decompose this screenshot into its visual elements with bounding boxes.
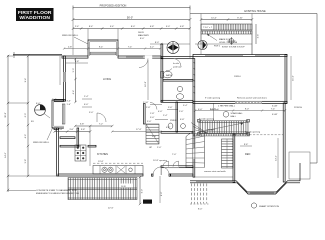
upper cabinets dashed: [93, 162, 143, 164]
deck stairs (wide, bottom-left): [68, 178, 137, 200]
dashed exterior stair (to remove): [190, 184, 209, 205]
svg-text:8'-8": 8'-8": [75, 61, 80, 63]
svg-text:2'-0": 2'-0": [157, 147, 162, 149]
svg-text:2'-4": 2'-4": [52, 99, 57, 101]
window well (left): [52, 100, 71, 128]
label: WINDOW WELL (top): [62, 35, 88, 44]
svg-text:7'-2": 7'-2": [99, 124, 104, 126]
svg-text:56'-0": 56'-0": [127, 16, 133, 19]
kitchen west line: [89, 126, 91, 166]
svg-text:PROPOSED ADDITION: PROPOSED ADDITION: [100, 4, 127, 7]
svg-text:4'-6": 4'-6": [161, 191, 163, 196]
svg-text:7'-0": 7'-0": [172, 154, 177, 156]
svg-text:6'-0": 6'-0": [198, 109, 203, 111]
svg-text:14'-0": 14'-0": [5, 152, 7, 158]
stair texts: [120, 184, 133, 188]
svg-text:8'-0": 8'-0": [198, 209, 203, 211]
interior wall: bath partition: [163, 80, 193, 82]
svg-text:KITCHEN: KITCHEN: [97, 153, 108, 156]
note: concrete stair to basement: [36, 189, 80, 195]
wall: family room south: [193, 101, 287, 103]
svg-text:6'-8": 6'-8": [150, 26, 155, 28]
dimension line segments top: [72, 26, 191, 30]
svg-text:2'-4": 2'-4": [163, 115, 168, 117]
svg-text:HALL: HALL: [231, 115, 237, 118]
svg-text:4'-4": 4'-4": [73, 90, 75, 95]
kitchen counter w range and sink: [93, 166, 143, 175]
svg-text:pedestal: pedestal: [172, 66, 182, 69]
svg-text:CONCRETE STAIR TO BASEMENT FOR: CONCRETE STAIR TO BASEMENT FOR: [36, 189, 77, 192]
svg-text:36'-8": 36'-8": [5, 112, 7, 118]
svg-text:for the: for the: [173, 62, 180, 65]
wall: south segment right of doors: [171, 174, 194, 176]
svg-text:WINDOW WELL: WINDOW WELL: [62, 35, 79, 37]
svg-text:6'-0": 6'-0": [36, 103, 41, 105]
door arc bath: [173, 59, 181, 67]
svg-text:3'-0": 3'-0": [147, 121, 152, 123]
svg-text:16 R: 16 R: [121, 186, 126, 188]
wall: pantry vertical: [77, 128, 79, 146]
winder stair (curved): [186, 132, 205, 168]
door arc into living: [139, 59, 148, 68]
title block: FIRST FLOOR W/ADDITION: [16, 8, 54, 21]
window well (top): [88, 40, 118, 56]
svg-text:9'-6": 9'-6": [244, 144, 249, 146]
dim row above top wall: [63, 46, 161, 49]
svg-text:PORCH: PORCH: [294, 107, 302, 109]
svg-text:DECK: DECK: [138, 32, 145, 34]
svg-text:5'-8": 5'-8": [25, 159, 27, 164]
svg-text:2'-8": 2'-8": [58, 129, 63, 131]
svg-text:6'-0": 6'-0": [25, 113, 27, 118]
veranda step band (existing stoop): [201, 24, 252, 34]
deck / bay window south wall: [190, 163, 300, 194]
svg-text:5'-0": 5'-0": [73, 68, 75, 73]
target symbol: [228, 37, 236, 45]
window in top wall: [126, 56, 143, 58]
detail bubble B: [35, 105, 50, 118]
wall: family room east: [285, 54, 287, 103]
svg-text:9'-4": 9'-4": [25, 78, 27, 83]
dimension line 56'-0": [72, 16, 192, 21]
svg-text:5'-4": 5'-4": [183, 105, 188, 107]
svg-text:DEN: DEN: [245, 153, 250, 156]
property/outline line right: [316, 14, 318, 164]
svg-text:22'-6": 22'-6": [108, 208, 114, 210]
svg-text:EXIST STONE STOOP: EXIST STONE STOOP: [222, 47, 245, 49]
svg-text:6'-0": 6'-0": [84, 104, 89, 106]
porch outline: [272, 107, 317, 179]
wall: top wall bath section: [161, 57, 193, 59]
right wall dim: [291, 56, 295, 100]
svg-text:7'-4": 7'-4": [271, 108, 276, 110]
left column extra labels: [8, 56, 58, 191]
svg-text:7'-4": 7'-4": [128, 46, 133, 48]
svg-text:FIRST FLOOR: FIRST FLOOR: [18, 10, 52, 16]
svg-text:6'-08": 6'-08": [272, 106, 278, 108]
svg-text:SMART INTENTION: SMART INTENTION: [259, 205, 279, 208]
solid black marker: [143, 200, 152, 204]
wall: bath/hall south: [161, 100, 193, 102]
wall: den west: [233, 134, 235, 183]
den north dashed opening: [235, 134, 283, 136]
toilet: [161, 71, 173, 78]
dimension line right 10'-6" / 8'-10": [200, 17, 253, 20]
interior wall: stair hall west: [193, 59, 195, 178]
north/section marker circle 1: [167, 41, 179, 54]
svg-text:16'-8": 16'-8": [145, 81, 147, 87]
left outer dimension line: [5, 55, 9, 192]
svg-text:3'-0": 3'-0": [89, 112, 94, 114]
deck masonry note: [138, 32, 190, 45]
svg-text:5'-4": 5'-4": [110, 26, 115, 28]
wall: west exterior upper: [64, 56, 66, 101]
svg-text:front hall: front hall: [210, 108, 219, 111]
retaining wall line top-left: [13, 52, 62, 58]
wall: west wing top (right of well): [118, 56, 161, 58]
svg-text:Remove pocket wall and doors: Remove pocket wall and doors: [237, 97, 268, 100]
note: pedestal: [166, 62, 182, 71]
svg-text:1'-4": 1'-4": [67, 104, 72, 106]
wall: kitchen south: [58, 174, 143, 176]
tag circle: deck note: [251, 203, 279, 208]
svg-text:LIBRARY: LIBRARY: [206, 129, 216, 132]
stair tag circle: [223, 112, 243, 118]
wall: den east: [283, 103, 285, 182]
svg-text:FLR 0: FLR 0: [214, 46, 221, 48]
wall: west exterior lower: [57, 128, 59, 176]
left inner dimension line: [25, 55, 29, 177]
label: WINDOW WELL (left): [33, 127, 53, 144]
svg-text:10'-6": 10'-6": [211, 17, 217, 19]
wall poche ticks: [194, 62, 195, 94]
svg-text:STAIR HALL: STAIR HALL: [231, 112, 244, 115]
svg-text:LIVING: LIVING: [103, 78, 111, 81]
svg-text:9' wide opening: 9' wide opening: [245, 132, 261, 134]
svg-text:EMERGENCY EGRESS PER DEM IRC 3: EMERGENCY EGRESS PER DEM IRC 310: [36, 193, 80, 195]
dimension line: EXISTING HOUSE: [190, 10, 317, 14]
svg-text:4'-8": 4'-8": [180, 26, 185, 28]
window in west wall: [64, 72, 66, 82]
svg-text:1'-8": 1'-8": [150, 113, 155, 115]
svg-text:6'-08": 6'-08": [272, 114, 278, 116]
svg-text:8'-0": 8'-0": [140, 38, 145, 40]
french doors to deck: [152, 160, 171, 176]
svg-text:remove stair and walls: remove stair and walls: [204, 170, 227, 173]
interior wall: hall/bath west: [161, 58, 163, 102]
svg-text:3'-0": 3'-0": [67, 101, 72, 103]
svg-text:2 HR FIRE WALL: 2 HR FIRE WALL: [218, 105, 236, 108]
svg-text:2'-4": 2'-4": [75, 26, 80, 28]
svg-text:5'-0": 5'-0": [166, 26, 171, 28]
svg-text:13'-2": 13'-2": [276, 155, 278, 161]
powder room wall: [176, 102, 178, 132]
veranda side lines: [200, 34, 202, 54]
svg-text:13'-6": 13'-6": [98, 161, 104, 163]
svg-text:1928.0: 1928.0: [234, 76, 241, 78]
svg-text:2'-6": 2'-6": [179, 111, 184, 113]
svg-text:LEVEL VERANDA: LEVEL VERANDA: [219, 41, 237, 44]
extra center tiny dims: [143, 102, 188, 129]
extension lines top: [72, 8, 74, 56]
svg-text:2'-8": 2'-8": [68, 46, 73, 48]
svg-text:MASONRY: MASONRY: [138, 34, 150, 37]
svg-text:8'-10": 8'-10": [237, 17, 243, 19]
section marker circle 2: [198, 40, 207, 49]
tiny dims near powder: [146, 107, 184, 122]
svg-text:W/ADDITION: W/ADDITION: [19, 15, 50, 21]
notes under family room: [198, 97, 278, 111]
svg-text:8'-0": 8'-0": [131, 26, 136, 28]
dim right of deck stairs: [139, 176, 144, 205]
svg-text:9' wide opening: 9' wide opening: [205, 98, 221, 100]
wall: hall mid: [161, 132, 193, 134]
dimension line: PROPOSED ADDITION: [73, 4, 190, 9]
wc fixtures: [176, 86, 183, 99]
svg-text:7'-10" x 7: 7'-10" x 7: [203, 27, 213, 29]
svg-text:UP: UP: [149, 147, 153, 149]
wall: west jog: [54, 99, 65, 101]
svg-text:3'-8": 3'-8": [81, 129, 86, 131]
svg-text:3'-6": 3'-6": [168, 107, 173, 109]
svg-text:9' wide opening: 9' wide opening: [199, 118, 215, 120]
svg-text:8'-0": 8'-0": [155, 42, 160, 44]
svg-text:9'-4": 9'-4": [99, 46, 104, 48]
svg-text:15'-6": 15'-6": [293, 75, 295, 81]
wall: kitchen north partial: [60, 145, 79, 147]
dim line left rooms: [54, 124, 114, 133]
svg-text:6'-8": 6'-8": [180, 119, 185, 121]
svg-text:3'-6": 3'-6": [258, 34, 260, 39]
svg-text:2'-8": 2'-8": [146, 107, 151, 109]
svg-text:5'-0": 5'-0": [150, 117, 155, 119]
svg-text:4'-0": 4'-0": [158, 111, 163, 113]
wall: family room top: [193, 54, 287, 56]
svg-text:2'-4": 2'-4": [84, 96, 89, 98]
svg-text:3'-8": 3'-8": [69, 129, 74, 131]
svg-text:EXISTING HOUSE: EXISTING HOUSE: [244, 10, 266, 13]
svg-text:10'-8" opening: 10'-8" opening: [153, 160, 168, 162]
powder fixtures: [168, 123, 173, 129]
appliance grid (washer/dryer): [75, 145, 86, 161]
wall: west wing top (left of well): [62, 56, 88, 58]
svg-text:17'-6": 17'-6": [136, 129, 142, 131]
small stair to remove: [222, 139, 234, 168]
note: MAKE FOR LEVEL VERANDA: [207, 34, 237, 48]
svg-text:8'-4": 8'-4": [89, 26, 94, 28]
svg-text:9'-0": 9'-0": [142, 189, 144, 194]
back stair (closet stair): [146, 124, 159, 149]
main stair hall stair: [199, 121, 248, 134]
family room south dim line: [194, 108, 286, 111]
svg-text:3'-8": 3'-8": [80, 124, 85, 126]
svg-text:9'-0": 9'-0": [245, 108, 250, 110]
svg-text:4'-2": 4'-2": [150, 46, 155, 48]
interior dim string west: [66, 58, 88, 103]
right vertical dim 3'-6": [256, 24, 260, 44]
wall: hall south w doors: [161, 154, 193, 168]
interior dim verticals center: [145, 60, 148, 100]
svg-text:4'-6": 4'-6": [25, 134, 27, 139]
svg-text:WINDOW WELL: WINDOW WELL: [33, 142, 50, 144]
